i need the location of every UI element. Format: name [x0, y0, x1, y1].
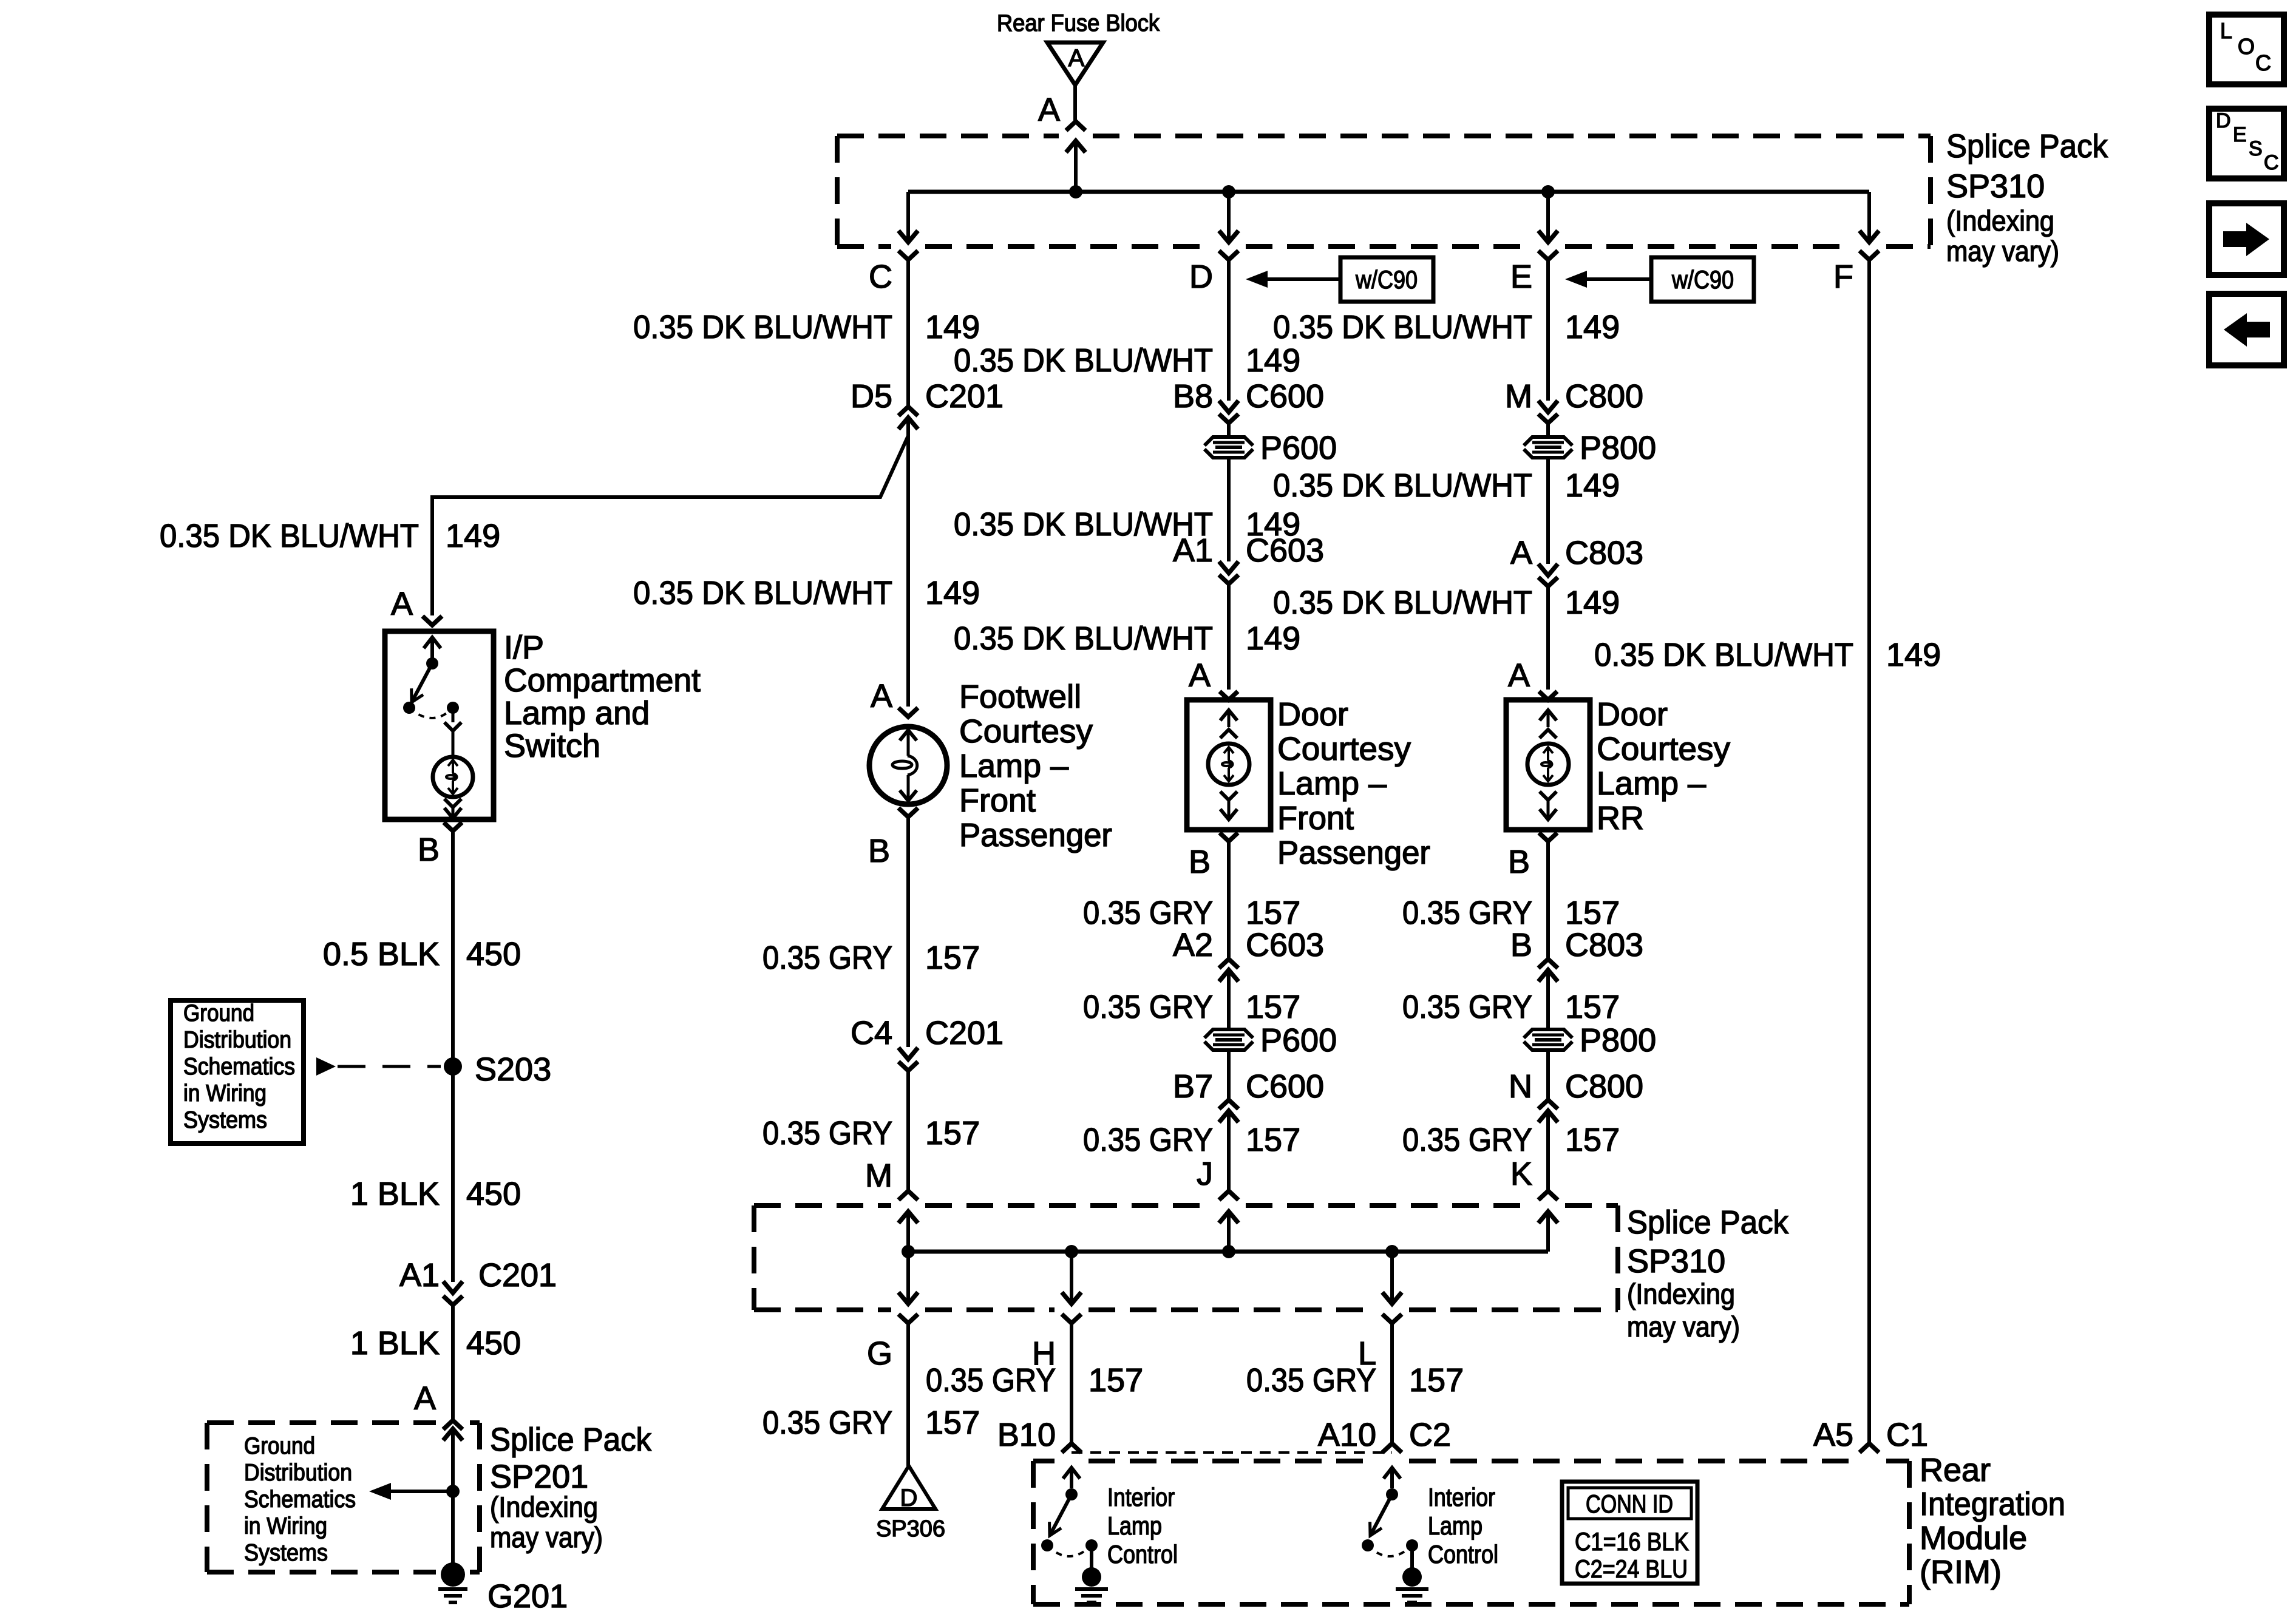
wire triangle to A terminal [1073, 85, 1077, 121]
svg-text:P600: P600 [1260, 430, 1337, 466]
svg-text:157: 157 [1409, 1362, 1464, 1398]
svg-text:Lamp –: Lamp – [1597, 765, 1706, 802]
connector fork M into SP310 [898, 1191, 918, 1200]
svg-text:SP201: SP201 [490, 1459, 588, 1495]
svg-text:Rear: Rear [1920, 1452, 1991, 1488]
svg-text:Interior: Interior [1428, 1483, 1495, 1511]
svg-text:SP310: SP310 [1627, 1243, 1725, 1280]
svg-text:C600: C600 [1246, 378, 1324, 415]
svg-text:0.35 GRY: 0.35 GRY [1083, 989, 1213, 1025]
wire D to C600 B7 [1227, 1051, 1231, 1100]
connector fork C800 N [1538, 1100, 1558, 1109]
svg-text:B: B [1189, 844, 1211, 880]
label Footwell Courtesy Lamp Front Passenger [959, 679, 1112, 853]
door lamp RR lower pin arrow [1540, 800, 1557, 819]
door lamp RR bulb [1527, 744, 1569, 785]
svg-text:Distribution: Distribution [244, 1460, 352, 1486]
svg-text:P600: P600 [1260, 1022, 1337, 1059]
svg-text:Footwell: Footwell [959, 679, 1081, 715]
door lamp front passenger lower fork [1220, 792, 1237, 800]
svg-text:G201: G201 [487, 1578, 568, 1615]
junction dot E [1541, 185, 1555, 198]
svg-text:157: 157 [1565, 1122, 1620, 1158]
junction dot J lower [1222, 1245, 1235, 1258]
svg-text:SP306: SP306 [876, 1516, 945, 1542]
svg-text:1 BLK: 1 BLK [350, 1176, 440, 1212]
connector fork C201 C4 [898, 1062, 918, 1191]
svg-text:A10: A10 [1318, 1417, 1376, 1453]
svg-text:Distribution: Distribution [183, 1027, 291, 1053]
svg-text:Lamp and: Lamp and [504, 695, 650, 731]
arrow into C201 A1 [443, 1281, 463, 1293]
connector fork E below SP310 [1538, 251, 1558, 260]
svg-text:Courtesy: Courtesy [1597, 731, 1730, 767]
svg-text:Control: Control [1428, 1540, 1498, 1568]
svg-text:157: 157 [1565, 895, 1620, 931]
svg-text:E: E [1510, 259, 1532, 295]
I/P lamp bulb [433, 757, 473, 797]
connector fork K into SP310 [1538, 1191, 1558, 1200]
svg-text:450: 450 [466, 1325, 521, 1361]
svg-text:0.35 GRY: 0.35 GRY [1402, 895, 1532, 931]
door lamp front passenger internal fork [1220, 730, 1237, 738]
inline connector P600 [1204, 430, 1337, 466]
svg-text:Splice Pack: Splice Pack [490, 1422, 652, 1458]
svg-text:0.35 GRY: 0.35 GRY [763, 1115, 892, 1151]
junction dot L [1385, 1245, 1399, 1258]
svg-text:149: 149 [1565, 309, 1620, 345]
I/P lamp feed fork [444, 708, 461, 757]
svg-text:149: 149 [446, 518, 500, 554]
connector fork H below lower SP310 [1062, 1314, 1081, 1323]
svg-text:RR: RR [1597, 800, 1644, 836]
junction dot G [902, 1245, 915, 1258]
svg-text:B: B [1508, 844, 1530, 880]
svg-text:Lamp: Lamp [1107, 1511, 1162, 1540]
arrow into C800 N [1538, 1111, 1558, 1191]
svg-text:P800: P800 [1580, 430, 1656, 466]
svg-text:C600: C600 [1246, 1068, 1324, 1105]
wire D down [1227, 260, 1231, 401]
svg-text:(Indexing: (Indexing [1946, 205, 2054, 237]
connector fork D below SP310 [1219, 251, 1238, 260]
svg-text:Schematics: Schematics [244, 1486, 356, 1513]
svg-text:0.35 DK BLU/WHT: 0.35 DK BLU/WHT [954, 620, 1213, 657]
svg-text:in Wiring: in Wiring [244, 1513, 327, 1539]
icon box DESC [2209, 109, 2284, 178]
wire lower SP310 drop H [1062, 1252, 1081, 1304]
ground distribution schematics reference box [171, 1000, 304, 1144]
icon box LOC [2209, 15, 2284, 84]
wire E to C800 N [1546, 1051, 1550, 1100]
svg-text:450: 450 [466, 1176, 521, 1212]
I/P switch pin arrow [424, 637, 441, 659]
svg-text:450: 450 [466, 936, 521, 972]
wire SP310 drop C [898, 192, 918, 242]
arrow into C201 C4 [898, 1048, 918, 1059]
connector fork A5 [1860, 1443, 1879, 1453]
svg-text:157: 157 [1246, 895, 1300, 931]
svg-text:157: 157 [1089, 1362, 1143, 1398]
svg-text:Systems: Systems [244, 1540, 328, 1566]
svg-text:Door: Door [1277, 696, 1348, 733]
svg-text:0.35 GRY: 0.35 GRY [1246, 1362, 1376, 1398]
fuse block triangle A [1047, 42, 1103, 85]
svg-text:A: A [414, 1380, 436, 1417]
svg-text:Ground: Ground [244, 1433, 315, 1459]
connector fork A10 [1382, 1443, 1402, 1453]
icon box arrow right [2209, 203, 2284, 275]
lower bus wire [908, 1250, 1548, 1254]
svg-text:O: O [2238, 34, 2255, 59]
svg-text:N: N [1509, 1068, 1532, 1105]
svg-text:0.35 DK BLU/WHT: 0.35 DK BLU/WHT [1273, 309, 1532, 345]
svg-text:A5: A5 [1813, 1417, 1853, 1453]
inline connector P600 lower [1204, 1022, 1337, 1059]
svg-text:Front: Front [1277, 800, 1354, 836]
svg-text:B8: B8 [1173, 378, 1213, 415]
label I/P Compartment Lamp and Switch [504, 629, 701, 764]
svg-text:149: 149 [925, 575, 980, 611]
arrow into C800 M [1538, 401, 1558, 412]
svg-text:A1: A1 [1173, 532, 1213, 569]
junction dot A [1069, 185, 1082, 198]
svg-text:J: J [1197, 1156, 1213, 1192]
svg-text:0.35 DK BLU/WHT: 0.35 DK BLU/WHT [1594, 637, 1853, 673]
svg-text:C603: C603 [1246, 927, 1324, 963]
svg-text:A: A [1189, 657, 1211, 694]
connector fork C201 D5 [898, 407, 918, 416]
door lamp RR lower fork [1540, 792, 1557, 800]
inline connector P800 [1524, 430, 1656, 466]
svg-text:C4: C4 [851, 1015, 892, 1051]
svg-text:may vary): may vary) [1946, 235, 2059, 267]
svg-text:149: 149 [925, 309, 980, 345]
svg-text:157: 157 [925, 1115, 980, 1151]
svg-text:B7: B7 [1173, 1068, 1213, 1105]
svg-text:0.35 GRY: 0.35 GRY [1402, 989, 1532, 1025]
svg-text:0.35 DK BLU/WHT: 0.35 DK BLU/WHT [160, 518, 419, 554]
door lamp RR internal pin arrow [1540, 710, 1557, 727]
svg-text:C800: C800 [1565, 378, 1643, 415]
svg-text:0.35 DK BLU/WHT: 0.35 DK BLU/WHT [1273, 467, 1532, 504]
svg-text:D: D [2216, 109, 2231, 132]
interior lamp control switch A10 [1362, 1488, 1418, 1556]
svg-text:C: C [2264, 151, 2279, 174]
svg-text:A2: A2 [1173, 927, 1213, 963]
wire branch to I/P lamp [432, 436, 908, 615]
svg-text:A: A [1510, 535, 1532, 571]
svg-text:0.35 GRY: 0.35 GRY [1083, 1122, 1213, 1158]
arrow B10 into RIM [1063, 1468, 1080, 1488]
wire E to C803 [1546, 458, 1550, 564]
junction dot SP201 [446, 1485, 460, 1498]
connector fork C201 A1 [443, 1296, 463, 1420]
lamp terminal fork door front passenger B [1220, 833, 1238, 958]
wire F long drop [1867, 260, 1871, 1443]
svg-text:(RIM): (RIM) [1920, 1554, 2002, 1590]
svg-text:L: L [2220, 18, 2232, 43]
wire to ground G201 [451, 1491, 455, 1566]
wire lower SP310 drop L [1382, 1252, 1402, 1304]
label Rear Integration Module RIM [1920, 1452, 2065, 1590]
svg-text:0.35 DK BLU/WHT: 0.35 DK BLU/WHT [633, 575, 892, 611]
svg-text:0.35 GRY: 0.35 GRY [763, 940, 892, 976]
svg-text:S: S [2249, 137, 2263, 160]
arrow ground distribution pointer [316, 1057, 441, 1076]
splice pack SP201 dashed box [207, 1423, 480, 1572]
w/C90 tag for E [1651, 257, 1754, 302]
svg-text:0.35 DK BLU/WHT: 0.35 DK BLU/WHT [1273, 585, 1532, 621]
bus wire inside SP310 [908, 190, 1869, 194]
svg-text:SP310: SP310 [1946, 168, 2045, 205]
connector fork B10 [1062, 1443, 1081, 1453]
svg-text:(Indexing: (Indexing [1627, 1278, 1735, 1310]
door courtesy lamp front passenger box [1187, 700, 1271, 830]
svg-text:M: M [1505, 378, 1532, 415]
lamp terminal fork I/P B [444, 822, 462, 1282]
svg-text:P800: P800 [1580, 1022, 1656, 1059]
svg-text:K: K [1510, 1156, 1532, 1192]
wire C down to footwell lamp [906, 418, 910, 707]
svg-text:149: 149 [1886, 637, 1941, 673]
connector fork C803 A [1538, 577, 1558, 690]
lamp terminal fork footwell B [898, 808, 918, 1047]
ground interior lamp control B10 [1075, 1545, 1108, 1602]
arrow into C600 B8 [1219, 401, 1238, 412]
label door courtesy lamp RR [1597, 696, 1730, 836]
connector fork A into SP201 [443, 1420, 463, 1429]
arrow into C803 A [1538, 564, 1558, 575]
w/C90 tag for D [1340, 257, 1433, 302]
svg-text:D: D [1189, 259, 1213, 295]
svg-text:C201: C201 [925, 378, 1004, 415]
connector C2 boundary dashed line [1072, 1451, 1392, 1454]
label Splice Pack SP310 [1946, 128, 2108, 267]
arrow A10 into RIM [1384, 1468, 1401, 1488]
svg-text:Courtesy: Courtesy [1277, 731, 1411, 767]
lamp terminal fork door RR B [1539, 833, 1557, 958]
svg-text:0.35 DK BLU/WHT: 0.35 DK BLU/WHT [633, 309, 892, 345]
wire SP310 drop F [1860, 192, 1879, 242]
svg-text:may vary): may vary) [490, 1521, 603, 1553]
svg-text:149: 149 [1565, 467, 1620, 504]
svg-text:B: B [1510, 927, 1532, 963]
arrow w/C90 to wire E [1565, 271, 1651, 288]
svg-text:Compartment: Compartment [504, 662, 701, 699]
arrow branch left SP201 [369, 1483, 453, 1500]
door lamp front passenger lower pin arrow [1220, 800, 1237, 819]
splice SP306 triangle D [882, 1466, 936, 1511]
lamp terminal fork footwell A [898, 708, 918, 717]
arrow A into SP201 [443, 1429, 463, 1488]
lamp terminal fork door RR A [1539, 691, 1557, 700]
svg-text:Rear Fuse Block: Rear Fuse Block [997, 10, 1160, 36]
svg-text:C803: C803 [1565, 535, 1643, 571]
svg-text:M: M [865, 1158, 892, 1194]
wire SP310 drop E [1538, 192, 1558, 242]
svg-text:0.35 GRY: 0.35 GRY [1402, 1122, 1532, 1158]
svg-text:G: G [867, 1335, 892, 1372]
svg-text:Systems: Systems [183, 1107, 267, 1133]
svg-text:C803: C803 [1565, 927, 1643, 963]
svg-text:Lamp: Lamp [1428, 1511, 1483, 1540]
svg-text:Splice Pack: Splice Pack [1946, 128, 2108, 164]
svg-text:0.35 GRY: 0.35 GRY [763, 1405, 892, 1441]
arrow into C603 A1 [1219, 561, 1238, 573]
svg-text:157: 157 [925, 1405, 980, 1441]
label Splice Pack SP201 [490, 1422, 652, 1553]
arrow J into lower SP310 [1219, 1212, 1238, 1252]
icon box arrow left [2209, 294, 2284, 365]
svg-text:(Indexing: (Indexing [490, 1491, 598, 1523]
svg-text:A: A [1508, 657, 1530, 694]
svg-text:may vary): may vary) [1627, 1310, 1740, 1343]
I/P lamp lower fork [444, 799, 461, 807]
svg-text:C800: C800 [1565, 1068, 1643, 1105]
svg-text:Interior: Interior [1107, 1483, 1175, 1511]
I/P lamp lower pin arrow [444, 807, 461, 818]
interior lamp control switch B10 [1041, 1488, 1098, 1556]
svg-text:A: A [1038, 92, 1060, 128]
label door courtesy lamp front passenger [1277, 696, 1430, 871]
svg-text:Lamp –: Lamp – [1277, 765, 1387, 802]
connector fork I/P A [423, 616, 442, 625]
svg-text:I/P: I/P [504, 629, 544, 666]
svg-text:C: C [2255, 50, 2271, 75]
svg-text:B: B [868, 833, 890, 869]
svg-text:157: 157 [925, 940, 980, 976]
CONN ID table [1562, 1482, 1697, 1584]
ground distribution text inside SP201 [244, 1433, 356, 1566]
svg-text:A1: A1 [399, 1257, 440, 1293]
arrow into C603 A2 [1219, 970, 1238, 1029]
svg-text:Front: Front [959, 782, 1036, 819]
door lamp front passenger internal pin arrow [1220, 710, 1237, 727]
svg-text:157: 157 [1565, 989, 1620, 1025]
svg-text:C201: C201 [925, 1015, 1004, 1051]
connector fork C below SP310 [898, 251, 918, 260]
wire C down to C201 [906, 260, 910, 405]
svg-text:Integration: Integration [1920, 1486, 2065, 1522]
connector fork C600 B8 [1219, 414, 1238, 436]
wire G down to SP306 [906, 1323, 910, 1466]
arrow into C201 D5 [898, 418, 918, 429]
svg-text:0.35 GRY: 0.35 GRY [926, 1362, 1056, 1398]
svg-text:Passenger: Passenger [1277, 835, 1430, 871]
connector fork C600 B7 [1219, 1100, 1238, 1109]
wire D to C603 [1227, 458, 1231, 561]
splice S203 [444, 1057, 462, 1076]
label Splice Pack SP310 lower [1627, 1204, 1789, 1343]
svg-text:Switch: Switch [504, 728, 600, 764]
svg-text:A: A [391, 586, 413, 622]
svg-text:0.5 BLK: 0.5 BLK [323, 936, 440, 972]
svg-text:Control: Control [1107, 1540, 1178, 1568]
connector fork J into SP310 [1219, 1191, 1238, 1200]
arrow A into splice pack [1066, 141, 1085, 192]
wire B10 down to RIM [1070, 1323, 1073, 1443]
connector fork C603 A1 [1219, 575, 1238, 690]
junction dot H [1065, 1245, 1078, 1258]
svg-text:S203: S203 [475, 1051, 551, 1088]
door lamp front passenger bulb [1208, 744, 1249, 785]
arrow M into lower SP310 [898, 1212, 918, 1252]
svg-text:C: C [869, 259, 892, 295]
label Interior Lamp Control B10 [1107, 1483, 1178, 1568]
svg-text:Courtesy: Courtesy [959, 713, 1093, 750]
svg-text:Lamp –: Lamp – [959, 748, 1068, 784]
svg-text:F: F [1833, 259, 1853, 295]
svg-text:w/C90: w/C90 [1671, 265, 1734, 294]
junction dot D [1222, 185, 1235, 198]
svg-text:Module: Module [1920, 1520, 2027, 1556]
footwell courtesy lamp bulb [869, 727, 947, 804]
svg-text:Splice Pack: Splice Pack [1627, 1204, 1789, 1241]
svg-text:C2=24 BLU: C2=24 BLU [1575, 1554, 1688, 1583]
wire lower SP310 drop G [898, 1252, 918, 1304]
arrow w/C90 to wire D [1246, 271, 1340, 288]
svg-text:157: 157 [1246, 989, 1300, 1025]
svg-text:Door: Door [1597, 696, 1668, 733]
svg-text:157: 157 [1246, 1122, 1300, 1158]
svg-text:149: 149 [1246, 620, 1300, 657]
svg-text:C603: C603 [1246, 532, 1324, 569]
ground G201 [438, 1562, 467, 1602]
svg-text:C201: C201 [478, 1257, 557, 1293]
arrow K into lower SP310 [1538, 1212, 1558, 1252]
svg-text:149: 149 [1246, 342, 1300, 379]
wire SP310 drop D [1219, 192, 1238, 242]
svg-text:C1=16 BLK: C1=16 BLK [1575, 1527, 1689, 1556]
svg-text:E: E [2233, 123, 2247, 146]
svg-text:in Wiring: in Wiring [183, 1080, 267, 1107]
inline connector P800 lower [1524, 1022, 1656, 1059]
connector fork F below SP310 [1860, 251, 1879, 260]
I/P switch [403, 657, 459, 718]
wire A10 down to RIM [1390, 1323, 1394, 1443]
ground interior lamp control A10 [1396, 1545, 1428, 1602]
svg-text:D5: D5 [851, 378, 892, 415]
svg-text:Passenger: Passenger [959, 817, 1112, 853]
svg-text:w/C90: w/C90 [1355, 265, 1418, 294]
connector fork G below lower SP310 [898, 1314, 918, 1323]
svg-text:A: A [871, 678, 892, 714]
splice pack SP310 lower dashed box [754, 1205, 1618, 1310]
svg-text:A: A [1068, 45, 1085, 72]
connector fork C603 A2 [1219, 959, 1238, 968]
connector fork C800 M [1538, 414, 1558, 436]
arrow into C600 B7 [1219, 1111, 1238, 1191]
svg-text:B: B [418, 832, 440, 868]
svg-text:Schematics: Schematics [183, 1054, 295, 1080]
svg-text:B10: B10 [997, 1417, 1056, 1453]
lamp terminal fork door front passenger A [1220, 691, 1238, 700]
splice pack SP310 top dashed box [837, 136, 1931, 246]
svg-text:D: D [900, 1485, 918, 1511]
svg-text:CONN ID: CONN ID [1586, 1490, 1673, 1518]
svg-text:149: 149 [1565, 585, 1620, 621]
door courtesy lamp RR box [1506, 700, 1590, 830]
connector fork L below lower SP310 [1382, 1314, 1402, 1323]
svg-text:1 BLK: 1 BLK [350, 1325, 440, 1361]
connector fork A into SP310 [1066, 121, 1085, 131]
connector fork C803 B [1538, 959, 1558, 968]
arrow into C803 B [1538, 970, 1558, 1029]
rear integration module dashed box [1033, 1461, 1909, 1604]
wire E down [1546, 260, 1550, 401]
svg-text:0.35 GRY: 0.35 GRY [1083, 895, 1213, 931]
